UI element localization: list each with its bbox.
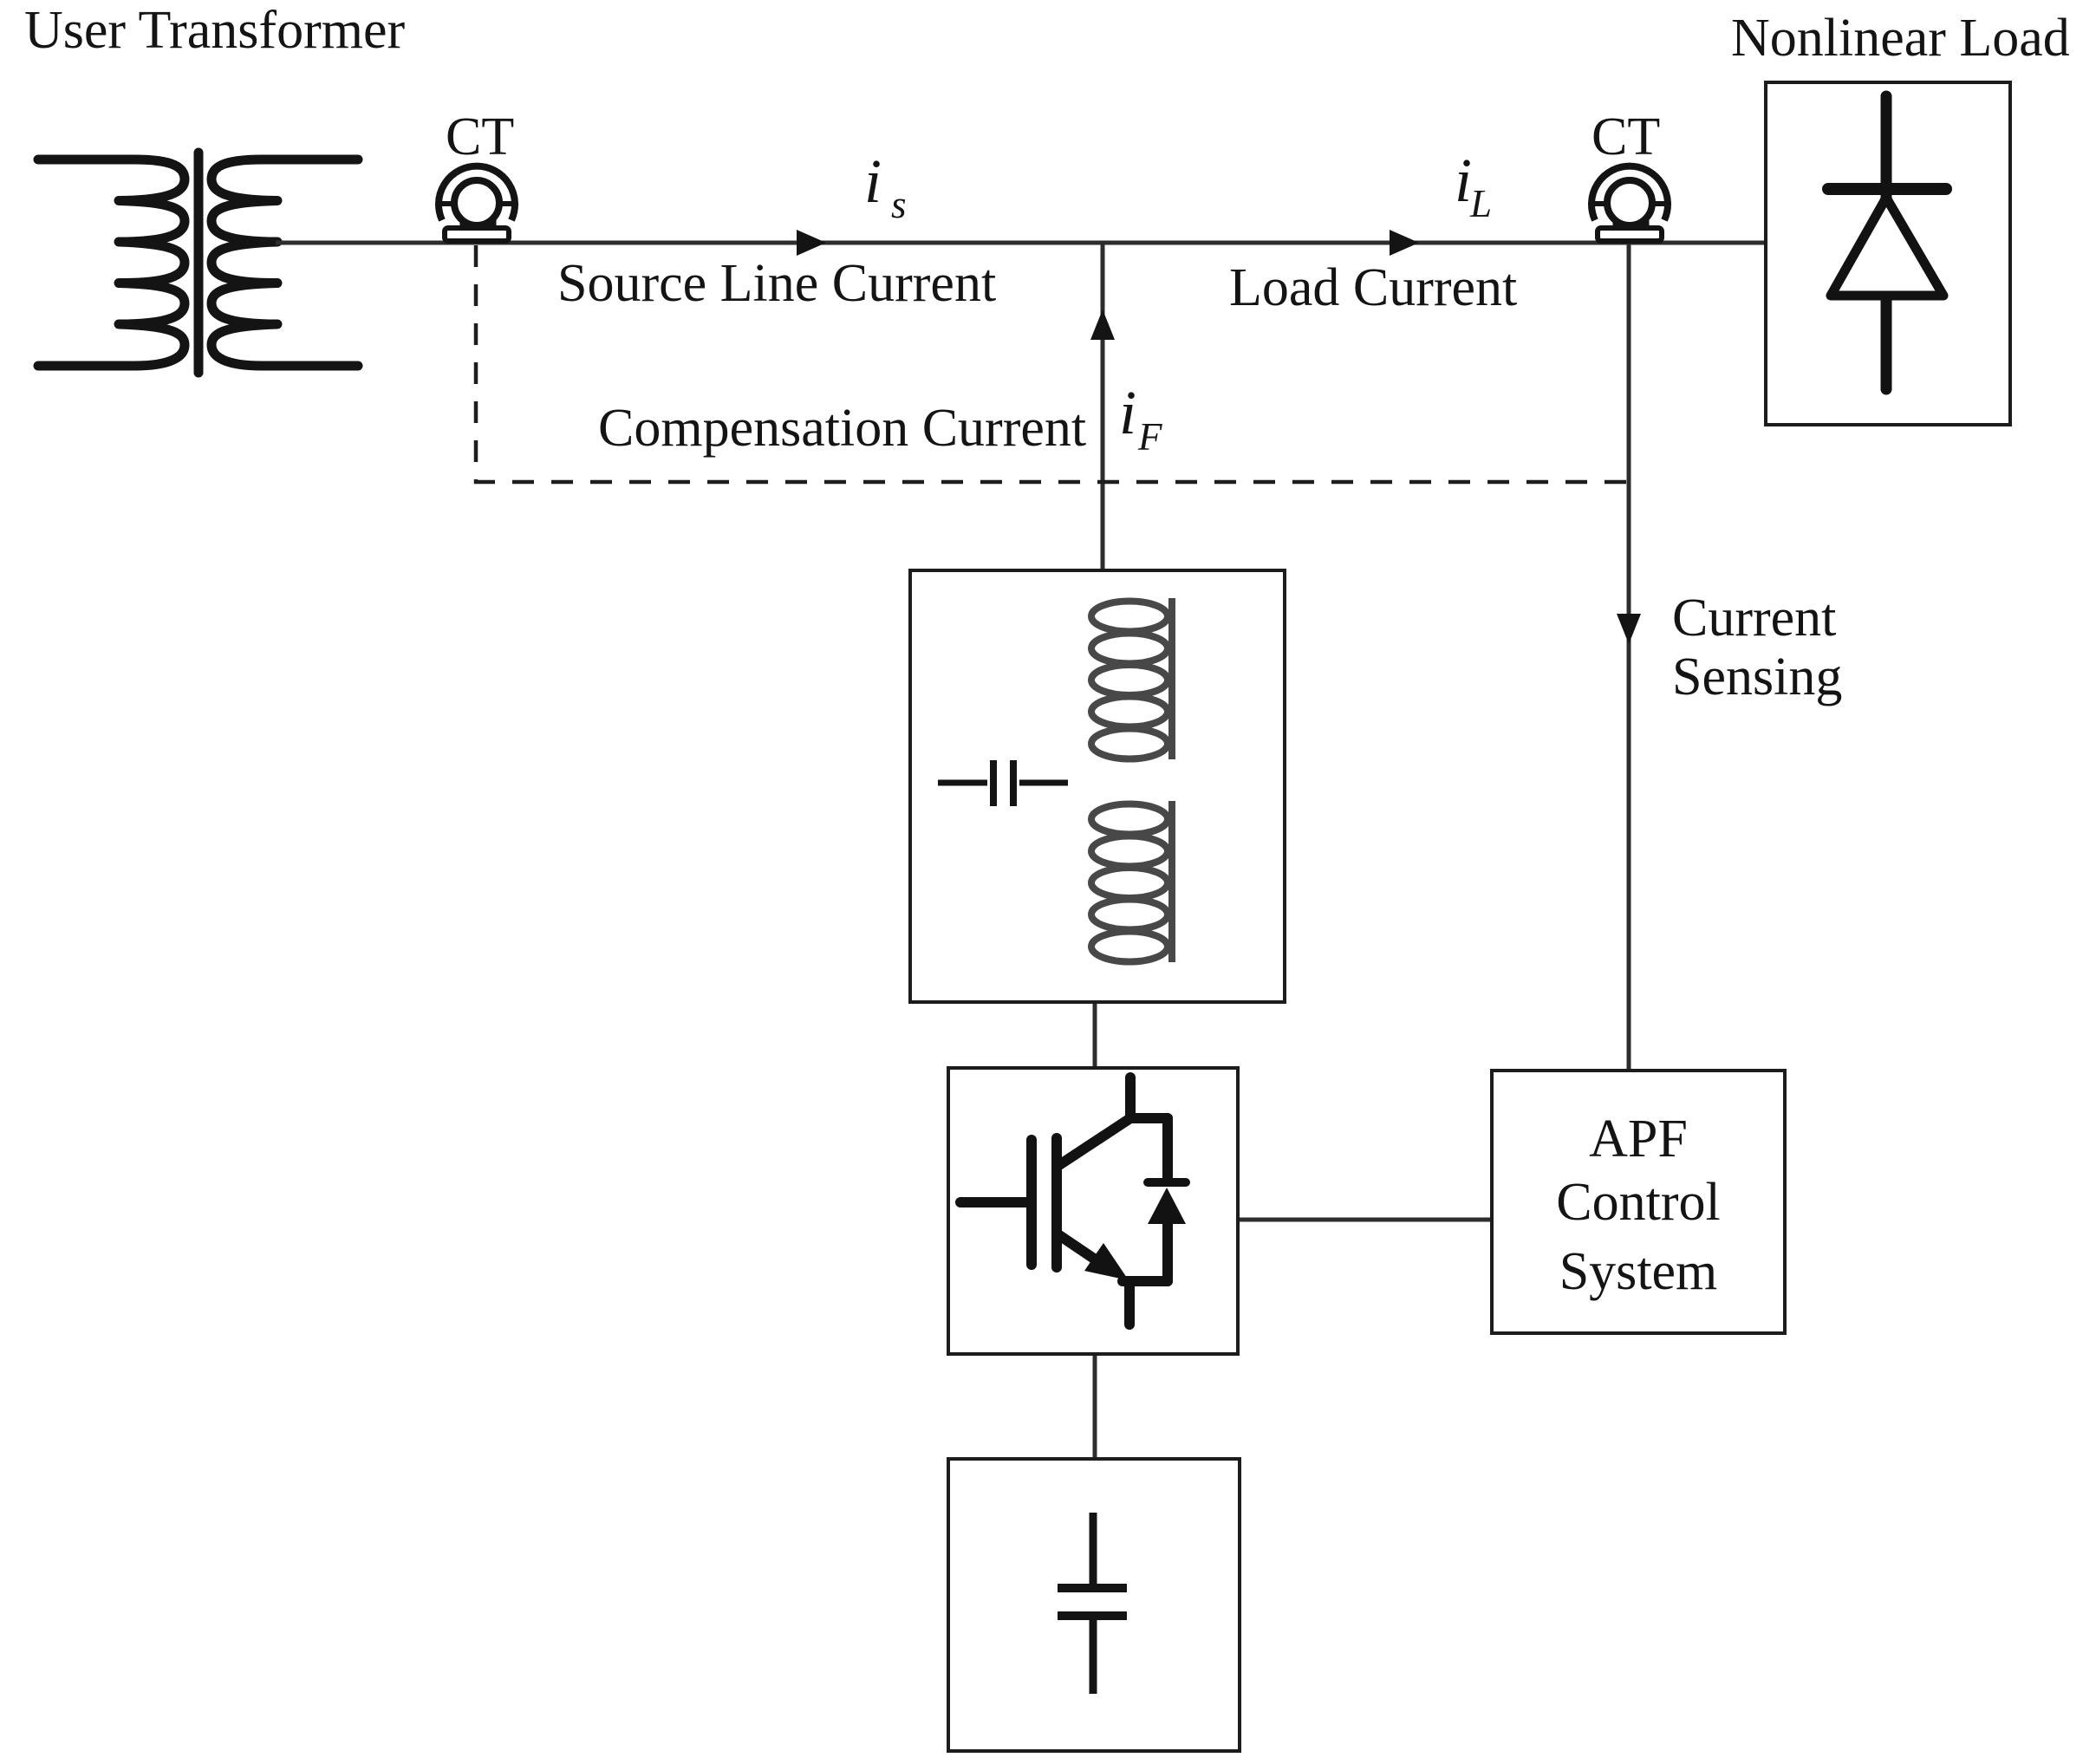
svg-text:Sensing: Sensing — [1672, 648, 1842, 706]
svg-text:s: s — [891, 183, 907, 226]
svg-text:APF: APF — [1589, 1110, 1688, 1168]
svg-text:CT: CT — [1592, 107, 1660, 166]
svg-text:Nonlinear Load: Nonlinear Load — [1731, 9, 2070, 68]
svg-text:Source Line Current: Source Line Current — [557, 254, 996, 313]
svg-text:CT: CT — [446, 107, 514, 166]
svg-text:i: i — [1119, 378, 1136, 447]
svg-text:i: i — [864, 146, 882, 216]
svg-text:Load Current: Load Current — [1229, 258, 1517, 317]
svg-text:Control: Control — [1556, 1173, 1720, 1232]
svg-text:L: L — [1469, 182, 1492, 225]
svg-text:Compensation Current: Compensation Current — [598, 399, 1086, 458]
svg-text:i: i — [1455, 146, 1472, 215]
svg-text:F: F — [1137, 415, 1162, 459]
svg-text:User Transformer: User Transformer — [24, 1, 405, 60]
svg-text:System: System — [1559, 1242, 1718, 1301]
svg-text:Current: Current — [1672, 589, 1836, 648]
